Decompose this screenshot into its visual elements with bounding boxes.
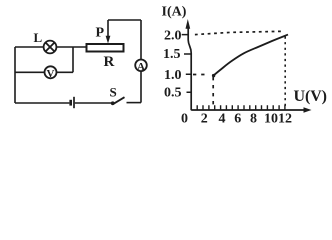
dashed line I=2.0 xyxy=(195,31,283,34)
wire top loop xyxy=(108,19,141,21)
svg-text:1.0: 1.0 xyxy=(164,68,182,83)
voltmeter V xyxy=(45,66,57,78)
wire right vertical lower xyxy=(140,71,142,103)
svg-text:S: S xyxy=(110,85,117,100)
svg-text:4: 4 xyxy=(219,112,226,127)
svg-text:0: 0 xyxy=(181,112,188,127)
y-axis (slightly warped like scan) xyxy=(188,27,191,110)
curve start point xyxy=(212,74,215,77)
y-axis ticks xyxy=(182,35,192,93)
dashed line U=3 xyxy=(212,77,214,108)
wire bottom left xyxy=(15,102,69,104)
x-axis xyxy=(191,109,306,111)
svg-text:8: 8 xyxy=(250,112,257,127)
battery short plate xyxy=(69,100,72,106)
wire voltmeter branch xyxy=(15,71,73,73)
svg-text:1.5: 1.5 xyxy=(163,47,181,62)
rheostat slider wire xyxy=(107,20,109,36)
svg-text:L: L xyxy=(34,30,43,45)
svg-text:6: 6 xyxy=(234,112,241,127)
x-axis arrowhead xyxy=(304,107,312,113)
dashed line U=12 xyxy=(284,37,286,109)
svg-text:12: 12 xyxy=(278,112,292,127)
lamp L xyxy=(44,41,57,54)
I-U curve xyxy=(214,35,289,76)
wire left vertical xyxy=(14,47,16,103)
wire top branch left xyxy=(15,46,44,48)
svg-text:10: 10 xyxy=(264,112,278,127)
svg-text:I(A): I(A) xyxy=(162,4,187,19)
battery long plate xyxy=(73,97,75,108)
switch S lever xyxy=(114,97,125,104)
svg-text:P: P xyxy=(96,26,105,41)
svg-text:U(V): U(V) xyxy=(294,88,328,105)
wire bottom right xyxy=(127,102,142,104)
svg-text:A: A xyxy=(137,61,145,73)
svg-text:R: R xyxy=(104,54,115,70)
rheostat slider arrowhead xyxy=(106,36,111,44)
svg-text:V: V xyxy=(47,68,55,80)
wire bottom middle xyxy=(75,102,111,104)
rheostat R body xyxy=(87,44,124,52)
wire right vertical upper xyxy=(140,20,142,60)
switch S pivot dot xyxy=(111,101,115,105)
x-axis ticks xyxy=(197,105,285,110)
wire after lamp to rheostat xyxy=(56,46,86,48)
svg-text:0.5: 0.5 xyxy=(164,86,182,101)
svg-text:2.0: 2.0 xyxy=(164,29,182,44)
y-axis arrowhead xyxy=(186,19,191,29)
wire junction vertical to voltmeter branch xyxy=(72,47,74,72)
svg-text:2: 2 xyxy=(201,112,208,127)
dashed line I=1.0 xyxy=(193,74,206,76)
ammeter A xyxy=(135,60,147,72)
